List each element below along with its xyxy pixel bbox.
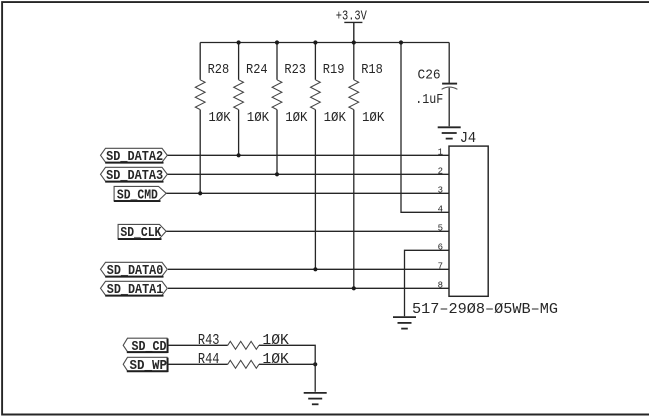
svg-text:SD_DATA0: SD_DATA0 <box>107 264 164 279</box>
svg-text:SD_DATA3: SD_DATA3 <box>106 169 163 184</box>
svg-text:SD_DATA1: SD_DATA1 <box>107 283 164 298</box>
svg-text:R28: R28 <box>208 62 230 78</box>
svg-text:4: 4 <box>438 205 443 215</box>
svg-text:R23: R23 <box>284 62 306 78</box>
svg-text:R19: R19 <box>323 62 345 78</box>
svg-text:1ØK: 1ØK <box>362 110 385 126</box>
svg-text:8: 8 <box>438 281 443 291</box>
svg-text:517–29Ø8–Ø5WB–MG: 517–29Ø8–Ø5WB–MG <box>412 300 558 318</box>
svg-text:1ØK: 1ØK <box>208 110 231 126</box>
svg-text:1ØK: 1ØK <box>285 110 308 126</box>
svg-text:5: 5 <box>438 224 443 234</box>
svg-text:1ØK: 1ØK <box>262 351 289 368</box>
svg-text:SD_CLK: SD_CLK <box>120 226 162 241</box>
svg-text:6: 6 <box>438 243 443 253</box>
svg-text:.1uF: .1uF <box>415 92 443 108</box>
svg-text:R18: R18 <box>361 62 383 78</box>
svg-text:1ØK: 1ØK <box>247 110 270 126</box>
svg-text:SD_WP: SD_WP <box>130 359 168 374</box>
svg-text:1: 1 <box>438 148 443 158</box>
svg-text:7: 7 <box>438 262 443 272</box>
svg-text:R44: R44 <box>198 351 220 368</box>
svg-text:SD_CMD: SD_CMD <box>117 188 158 203</box>
svg-text:SD_CD: SD_CD <box>132 340 167 355</box>
svg-text:J4: J4 <box>460 131 477 147</box>
svg-text:1ØK: 1ØK <box>262 332 289 349</box>
svg-text:+3.3V: +3.3V <box>336 9 367 25</box>
svg-text:R24: R24 <box>246 62 268 78</box>
svg-text:C26: C26 <box>418 68 441 84</box>
svg-text:SD_DATA2: SD_DATA2 <box>106 150 163 165</box>
svg-text:1ØK: 1ØK <box>324 110 347 126</box>
svg-text:R43: R43 <box>198 332 220 349</box>
svg-text:3: 3 <box>438 186 443 196</box>
svg-text:2: 2 <box>438 167 443 177</box>
